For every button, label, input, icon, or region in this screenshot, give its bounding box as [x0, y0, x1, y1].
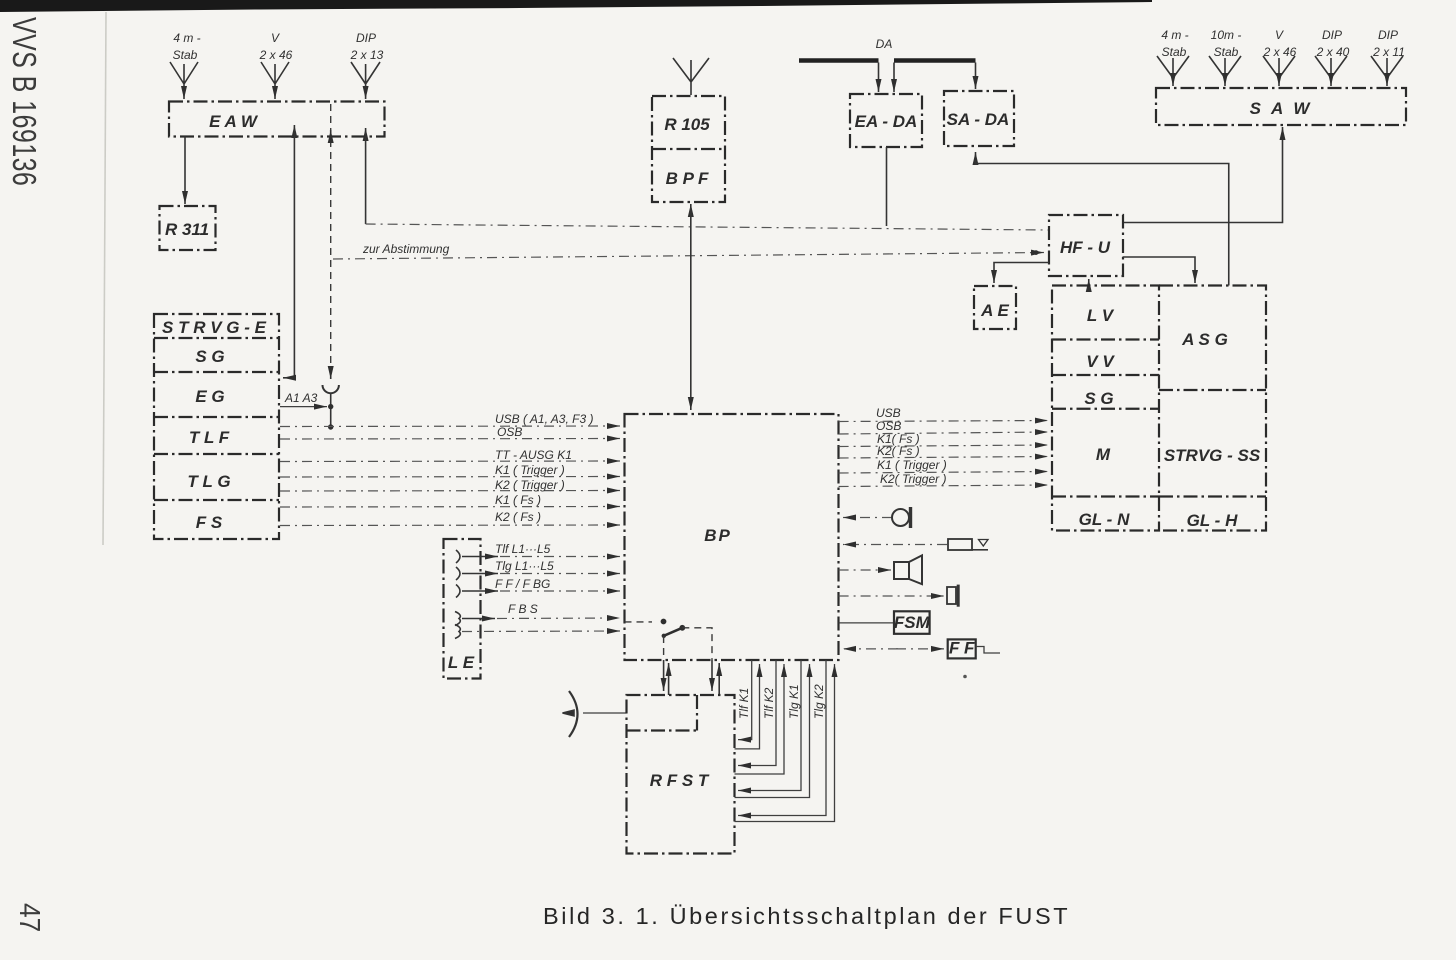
antenna 4m-Stab (left) — [170, 62, 198, 99]
wire HF-U to AE — [994, 263, 1049, 284]
wire BP to RFST channel Tlf K2 — [735, 660, 785, 774]
antenna DIP 2x40 — [1315, 56, 1347, 86]
box HF-U — [1049, 215, 1123, 276]
wire microphone to BP — [843, 517, 892, 519]
svg-text:A S G: A S G — [1181, 330, 1228, 349]
antenna V 2x46 (SAW) — [1263, 56, 1295, 86]
wire BP to M: K1(Trigger) — [839, 458, 1048, 473]
box LE — [444, 539, 481, 679]
svg-text:M: M — [1096, 445, 1111, 464]
svg-text:R 105: R 105 — [664, 115, 710, 134]
scan artifact: faint page crease — [103, 12, 106, 545]
svg-text:K1 ( Trigger ): K1 ( Trigger ) — [495, 463, 565, 477]
svg-text:K1 ( Fs ): K1 ( Fs ) — [495, 493, 541, 507]
antenna DIP 2x13 (left) — [351, 62, 380, 99]
svg-text:GL - H: GL - H — [1187, 511, 1238, 530]
wire BP to earpiece — [839, 595, 944, 597]
label DIP 2x13 (left) — [350, 31, 384, 62]
wire RFST up to BP (pair 2) — [718, 663, 720, 695]
coupler symbol below EAW — [323, 385, 339, 427]
wire EAW riser to tuning bus — [365, 128, 367, 224]
svg-text:47: 47 — [14, 903, 46, 932]
wire BP to speaker — [839, 569, 891, 571]
svg-text:V: V — [1275, 28, 1284, 42]
svg-text:2 x 13: 2 x 13 — [350, 48, 384, 62]
wire A1 A3 from stack — [280, 391, 327, 407]
switch feed (dashed) inside BP — [625, 619, 667, 625]
svg-text:4 m -: 4 m - — [173, 31, 200, 45]
svg-text:DIP: DIP — [1322, 28, 1342, 42]
box right stack right column (ASG STRVG-SS GL-H) — [1159, 286, 1266, 531]
wire DA to EA-DA (right drop) — [893, 63, 895, 93]
bus bar DA right — [894, 58, 976, 63]
bus bar DA left — [799, 58, 879, 63]
svg-text:zur Abstimmung: zur Abstimmung — [362, 242, 450, 256]
connector Tlf — [456, 550, 460, 563]
svg-text:USB ( A1, A3, F3 ): USB ( A1, A3, F3 ) — [495, 412, 593, 426]
wire OSB to BP — [280, 425, 620, 439]
wire BP to M: K1(Fs) — [839, 432, 1048, 447]
svg-text:2 x 40: 2 x 40 — [1316, 45, 1350, 59]
wire DA to EA-DA (left drop) — [878, 63, 880, 93]
wire BP to FSM — [839, 622, 894, 624]
label DIP 2x11 — [1372, 28, 1405, 59]
svg-text:F B S: F B S — [508, 602, 538, 616]
svg-text:4 m -: 4 m - — [1161, 28, 1188, 42]
label V 2x46 (SAW) — [1263, 28, 1297, 59]
svg-text:R 311: R 311 — [165, 220, 209, 239]
box BP — [625, 414, 839, 660]
connector FF/FBG — [456, 585, 460, 598]
wire Tlg L1..L5 to BP — [462, 559, 620, 574]
svg-text:K2 ( Trigger ): K2 ( Trigger ) — [495, 478, 565, 492]
box right stack left column (LV VV SG M GL-N) — [1052, 286, 1159, 531]
wire BP to M: OSB — [839, 419, 1048, 434]
speaker symbol — [894, 555, 922, 584]
svg-text:L E: L E — [448, 653, 475, 672]
svg-text:Tlg K1: Tlg K1 — [787, 684, 801, 719]
box EA-DA — [850, 94, 922, 147]
morse key symbol — [948, 539, 988, 550]
svg-text:S G: S G — [195, 347, 224, 366]
svg-text:Tlg L1···L5: Tlg L1···L5 — [495, 559, 554, 573]
microphone symbol — [892, 507, 911, 528]
svg-text:USB: USB — [876, 406, 901, 420]
svg-text:GL - N: GL - N — [1079, 510, 1130, 529]
svg-text:Stab: Stab — [1162, 45, 1187, 59]
wire EA-DA down to tuning bus — [886, 147, 888, 226]
antenna R105 — [673, 58, 709, 95]
wire RFST up to BP (pair 1) — [668, 663, 670, 695]
wire BPF to BP — [690, 204, 692, 410]
svg-text:A1 A3: A1 A3 — [284, 391, 318, 405]
wire LV to HF-U — [1088, 279, 1090, 286]
svg-text:DIP: DIP — [1378, 28, 1398, 42]
wire tuning bus A (EAW to HF-U) — [366, 224, 1049, 230]
box SAW — [1156, 88, 1406, 125]
signal step symbol after FF — [976, 647, 1000, 654]
svg-text:T L G: T L G — [187, 472, 230, 491]
svg-text:V: V — [271, 31, 280, 45]
wire BP to RFST channel Tlg K1 — [735, 660, 810, 798]
label DIP 2x40 — [1316, 28, 1350, 59]
svg-text:HF - U: HF - U — [1060, 238, 1111, 257]
box FF — [948, 639, 976, 659]
svg-text:Bild 3. 1. Übersichtsschaltpl: Bild 3. 1. Übersichtsschaltplan der FUST — [543, 903, 1070, 929]
box left stack (STRVG-E SG EG TLF TLG FS) — [154, 314, 279, 539]
wire EAW to R311 — [184, 137, 186, 205]
svg-text:T L F: T L F — [189, 428, 230, 447]
svg-text:OSB: OSB — [497, 425, 522, 439]
svg-text:Tlf L1···L5: Tlf L1···L5 — [495, 542, 551, 556]
svg-text:R F S T: R F S T — [650, 771, 710, 790]
svg-text:L V: L V — [1087, 306, 1115, 325]
box EAW — [169, 102, 385, 137]
svg-text:2 x 46: 2 x 46 — [259, 48, 293, 62]
wire BP to RFST channel Tlf K1 — [735, 660, 760, 749]
wire BP to M: K2(Fs) — [839, 444, 1048, 458]
box RFST — [627, 695, 735, 854]
svg-text:A E: A E — [980, 301, 1009, 320]
box R105 / BPF — [652, 96, 725, 202]
wire morse key to BP — [843, 544, 947, 546]
svg-text:DIP: DIP — [356, 31, 376, 45]
svg-text:Tlg K2: Tlg K2 — [812, 684, 826, 719]
antenna V 2x46 (left) — [261, 62, 289, 99]
svg-text:V V: V V — [1086, 352, 1115, 371]
wire K1 (Fs) to BP — [280, 493, 620, 507]
connector FBS — [455, 612, 460, 626]
svg-text:2 x 11: 2 x 11 — [1372, 45, 1405, 59]
svg-text:Stab: Stab — [1214, 45, 1239, 59]
wire K2 (Trigger) to BP — [280, 478, 620, 492]
svg-text:Stab: Stab — [173, 48, 198, 62]
wire BP to RFST channel Tlg K2 — [735, 660, 835, 822]
box R311 — [160, 206, 216, 250]
wire BP to M: K2(Trigger) — [839, 472, 1048, 487]
wire antenna tuning line (dashed) EAW to coupler — [330, 104, 332, 379]
svg-text:E G: E G — [195, 387, 224, 406]
wire K2 (Fs) to BP — [280, 510, 620, 526]
wire K1 (Trigger) to BP — [280, 463, 620, 477]
svg-text:F F: F F — [949, 639, 975, 658]
wire SA-DA feed from ASG riser — [976, 152, 1229, 286]
svg-text:S A W: S A W — [1250, 99, 1313, 118]
svg-text:VVS B 169136: VVS B 169136 — [5, 17, 42, 186]
svg-text:F S: F S — [196, 513, 223, 532]
box FSM — [894, 611, 931, 634]
connector lower — [455, 625, 460, 639]
svg-text:K2( Trigger ): K2( Trigger ) — [880, 472, 946, 486]
antenna 10m-Stab — [1209, 56, 1241, 86]
node junction on USB line — [328, 424, 333, 429]
svg-text:SA - DA: SA - DA — [947, 110, 1010, 129]
svg-text:FSM: FSM — [894, 613, 931, 632]
label 4m-Stab (left) — [173, 31, 201, 62]
box AE — [974, 286, 1016, 329]
svg-text:EA - DA: EA - DA — [855, 112, 918, 131]
label V 2x46 (left, faded) — [259, 31, 293, 62]
node A1 A3 junction — [328, 404, 333, 409]
label 10m-Stab — [1211, 28, 1242, 59]
wire Tlf L1..L5 to BP — [462, 542, 620, 557]
wire USB(A1,A3,F3) to BP — [280, 412, 620, 427]
svg-text:K1 ( Trigger ): K1 ( Trigger ) — [877, 458, 947, 472]
switch blade — [662, 625, 686, 638]
svg-text:TT - AUSG K1: TT - AUSG K1 — [495, 448, 572, 462]
label 4m-Stab (SAW) — [1161, 28, 1188, 59]
svg-text:K2 ( Fs ): K2 ( Fs ) — [495, 510, 541, 524]
box SA-DA — [944, 91, 1014, 146]
svg-text:OSB: OSB — [876, 419, 901, 433]
wire FF/FBG to BP — [462, 577, 620, 591]
wire switch contact to riser (dashed) — [682, 628, 712, 691]
svg-text:10m -: 10m - — [1211, 28, 1242, 42]
svg-text:S T R V G - E: S T R V G - E — [162, 318, 267, 337]
svg-text:B P F: B P F — [666, 169, 709, 188]
svg-text:Tlf K1: Tlf K1 — [737, 688, 751, 719]
scan artifact: top black bar — [0, 0, 1152, 12]
wire BP to FF (bidirectional) — [843, 648, 944, 650]
earpiece symbol — [947, 585, 958, 607]
wire EAW to EG (left stack) — [283, 125, 294, 378]
wire HF-U to SAW — [1123, 127, 1283, 223]
svg-text:STRVG - SS: STRVG - SS — [1164, 446, 1261, 465]
wire lower LE line to BP — [462, 630, 620, 633]
scan dot — [963, 675, 967, 679]
svg-text:2 x 46: 2 x 46 — [1263, 45, 1297, 59]
wire FBS to BP — [462, 602, 620, 619]
svg-text:S G: S G — [1084, 389, 1113, 408]
wire zur Abstimmung bus B — [333, 242, 1044, 259]
svg-text:DA: DA — [876, 37, 893, 51]
antenna DIP 2x11 — [1371, 56, 1403, 86]
svg-text:E A W: E A W — [209, 112, 259, 131]
wire HF-U to ASG — [1123, 257, 1196, 283]
wire switch pivot down to RFST — [663, 636, 665, 691]
handset symbol — [563, 691, 627, 737]
antenna 4m-Stab (SAW) — [1157, 56, 1189, 86]
connector Tlg — [456, 567, 460, 580]
svg-text:F F / F BG: F F / F BG — [495, 577, 550, 591]
wire TT-AUSG K1 to BP — [280, 448, 620, 462]
svg-text:K2( Fs ): K2( Fs ) — [877, 444, 920, 458]
svg-text:Tlf K2: Tlf K2 — [762, 687, 776, 719]
wire DA to SA-DA — [975, 63, 977, 90]
svg-text:BP: BP — [704, 526, 732, 545]
wire BP to M: USB — [839, 406, 1048, 422]
